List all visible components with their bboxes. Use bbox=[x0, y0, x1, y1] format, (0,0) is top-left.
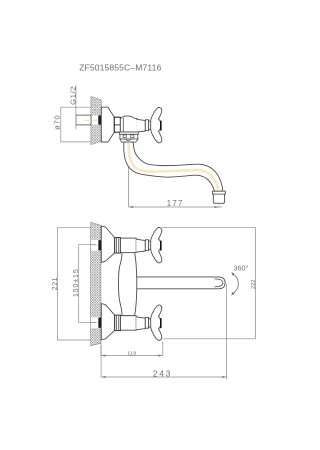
spout skirt bbox=[120, 139, 138, 142]
upper inlet pipe end (dark) bbox=[98, 240, 101, 250]
pipe centerline (yellow) bbox=[84, 119, 104, 121]
spout collar flange bbox=[119, 132, 138, 134]
lower inlet hole bbox=[91, 317, 98, 328]
svg-text:150±15: 150±15 bbox=[73, 268, 80, 297]
inlet pipe stub bbox=[76, 115, 91, 125]
wall section (hatched) bbox=[91, 97, 101, 145]
svg-text:360°: 360° bbox=[233, 263, 248, 272]
upper valve bbox=[101, 226, 136, 262]
svg-text:243: 243 bbox=[153, 369, 172, 378]
upper inlet centerline (yellow) bbox=[92, 244, 104, 246]
221 dimension bracket bbox=[57, 228, 90, 340]
aerator nozzle bbox=[213, 191, 226, 203]
spout centerline / 177 extension bbox=[128, 143, 130, 207]
spout ring band with notches bbox=[120, 134, 138, 139]
skirt center notch bbox=[126, 139, 131, 141]
pipe hole in wall bbox=[92, 115, 99, 124]
svg-text:119: 119 bbox=[127, 351, 136, 357]
handle assembly (top view) bbox=[136, 107, 162, 142]
119 dimension bbox=[100, 343, 102, 356]
150+-15 dimension bracket bbox=[79, 245, 96, 323]
wall section (hatched) bbox=[91, 222, 101, 345]
lower valve bbox=[101, 304, 136, 341]
dia70 dimension bracket bbox=[61, 107, 91, 142]
spout S-tube (top view) bbox=[124, 142, 223, 191]
swivel spout (plan) bbox=[132, 277, 225, 289]
lower inlet centerline (yellow) bbox=[92, 322, 104, 324]
svg-text:177: 177 bbox=[167, 199, 184, 208]
body column bbox=[119, 253, 137, 316]
177 dimension bbox=[218, 204, 220, 209]
svg-text:ZF5015855C–M7116: ZF5015855C–M7116 bbox=[79, 63, 161, 73]
lower inlet pipe end (dark) bbox=[98, 318, 101, 328]
escutcheon flange (top view) bbox=[101, 107, 114, 142]
connection hex nut bbox=[114, 117, 120, 132]
G1/2 leader bbox=[75, 86, 77, 130]
valve body (top view) bbox=[120, 116, 136, 132]
243 dimension bbox=[100, 346, 102, 377]
svg-text:221: 221 bbox=[52, 277, 59, 290]
upper inlet hole bbox=[91, 240, 98, 251]
pipe end (dark) bbox=[98, 116, 101, 125]
222 dimension bracket bbox=[162, 228, 255, 339]
svg-text:G1/2: G1/2 bbox=[68, 85, 77, 104]
spout inner highlight (cream) bbox=[129, 142, 219, 191]
svg-text:222: 222 bbox=[251, 280, 257, 289]
svg-text:ø70: ø70 bbox=[53, 115, 62, 130]
360 rotation arc bbox=[232, 273, 239, 294]
